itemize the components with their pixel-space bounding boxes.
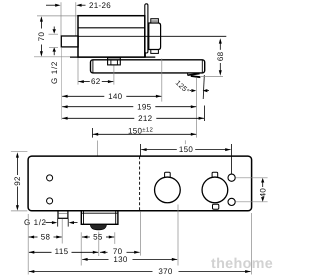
knob top tab: [151, 19, 159, 23]
spout outlet beak (side view): [187, 73, 189, 76]
wire: body-bottom extension (left tick for dim 70): [34, 56, 70, 58]
wire: aerator-center ext down: [113, 66, 115, 85]
knob 1 (front): [165, 172, 171, 178]
dim 70 (vertical, left): [40, 18, 42, 29]
knob bottom tab: [151, 50, 159, 54]
right small hole 1: [228, 174, 235, 181]
dim 195: [62, 105, 67, 108]
wire: right-circles ext above body: [230, 144, 232, 174]
wire: shelf-top extension (left): [37, 15, 78, 17]
dim 370: [29, 270, 34, 273]
spout box (front): [81, 211, 118, 225]
dim 55: [82, 236, 87, 239]
dim 150 (front, knob area): [141, 148, 146, 151]
svg-text:G 1/2: G 1/2: [50, 61, 59, 84]
wire: front ext lines down: [27, 214, 29, 275]
dim 62: [78, 80, 83, 83]
knob 2 (front): [212, 172, 218, 178]
dashed section divider: [139, 156, 141, 210]
svg-text:370: 370: [158, 267, 172, 276]
dim 212: [62, 117, 67, 120]
body bottom line: [70, 56, 155, 58]
dim 58: [29, 236, 34, 239]
svg-text:130: 130: [113, 255, 127, 264]
thermostat body (side view): [78, 16, 145, 57]
left small hole 2: [47, 198, 53, 204]
svg-text:140: 140: [108, 92, 122, 101]
aerator dome (front): [90, 224, 106, 230]
wire: divider ext above body: [139, 144, 141, 156]
dim 21-26: [46, 4, 56, 6]
dim 115: [29, 251, 34, 254]
svg-text:68: 68: [216, 51, 225, 61]
right small hole 2: [228, 198, 235, 205]
svg-text:150: 150: [179, 145, 193, 154]
dim 150±12: [93, 133, 98, 136]
svg-text:195: 195: [137, 102, 151, 111]
wire: body-back ext down: [77, 58, 79, 85]
dim 70 (front): [100, 251, 105, 254]
escutcheon plate (side view, thin bar): [145, 4, 148, 53]
dim 40 (vertical, right): [236, 177, 268, 179]
shelf seam line: [78, 27, 145, 29]
spout (side view): [91, 60, 205, 73]
wire: knob-tip ext down: [161, 59, 163, 102]
wire: spout-end ext (for dim 212): [204, 106, 206, 122]
svg-text:21-26: 21-26: [89, 1, 111, 10]
svg-text:70: 70: [37, 32, 46, 42]
svg-text:40: 40: [258, 188, 267, 198]
dim 92 (vertical, left): [11, 151, 28, 153]
faceplate body (front view): [28, 156, 252, 211]
G1/2 stub (front): [58, 211, 68, 219]
wire: ext from top view to front (spout center): [97, 141, 99, 156]
dim 68 (vertical, right): [219, 40, 221, 49]
knob (side view): [149, 23, 161, 50]
wire: dim150 left ext bar: [91, 128, 93, 138]
G 1/2 leader arrows (inlet): [53, 27, 55, 30]
svg-text:thehome: thehome: [211, 256, 273, 272]
wire: body-back extension line for dim 21-26: [75, 2, 77, 36]
svg-text:62: 62: [91, 77, 101, 86]
wire: tick under spout outlet: [201, 76, 223, 78]
svg-text:G 1/2: G 1/2: [24, 218, 47, 227]
left small hole 1: [47, 175, 53, 181]
svg-text:115: 115: [55, 247, 69, 256]
centerline: [78, 35, 226, 37]
inlet stub G1/2 (side view): [61, 36, 78, 47]
svg-text:55: 55: [93, 233, 103, 242]
wire: spout-tip ext down: [196, 78, 198, 138]
dim 140: [62, 95, 67, 98]
aerator connector (side view): [108, 58, 121, 65]
wire: center tick above dim 150 text: [184, 140, 186, 144]
knob 2 bottom tab: [213, 204, 219, 209]
svg-text:92: 92: [13, 176, 22, 186]
angle leg line from outlet: [203, 75, 204, 99]
dim 130: [82, 258, 87, 261]
svg-text:58: 58: [41, 233, 51, 242]
svg-text:212: 212: [138, 114, 152, 123]
wire: wall-plane extension line: [60, 2, 62, 36]
